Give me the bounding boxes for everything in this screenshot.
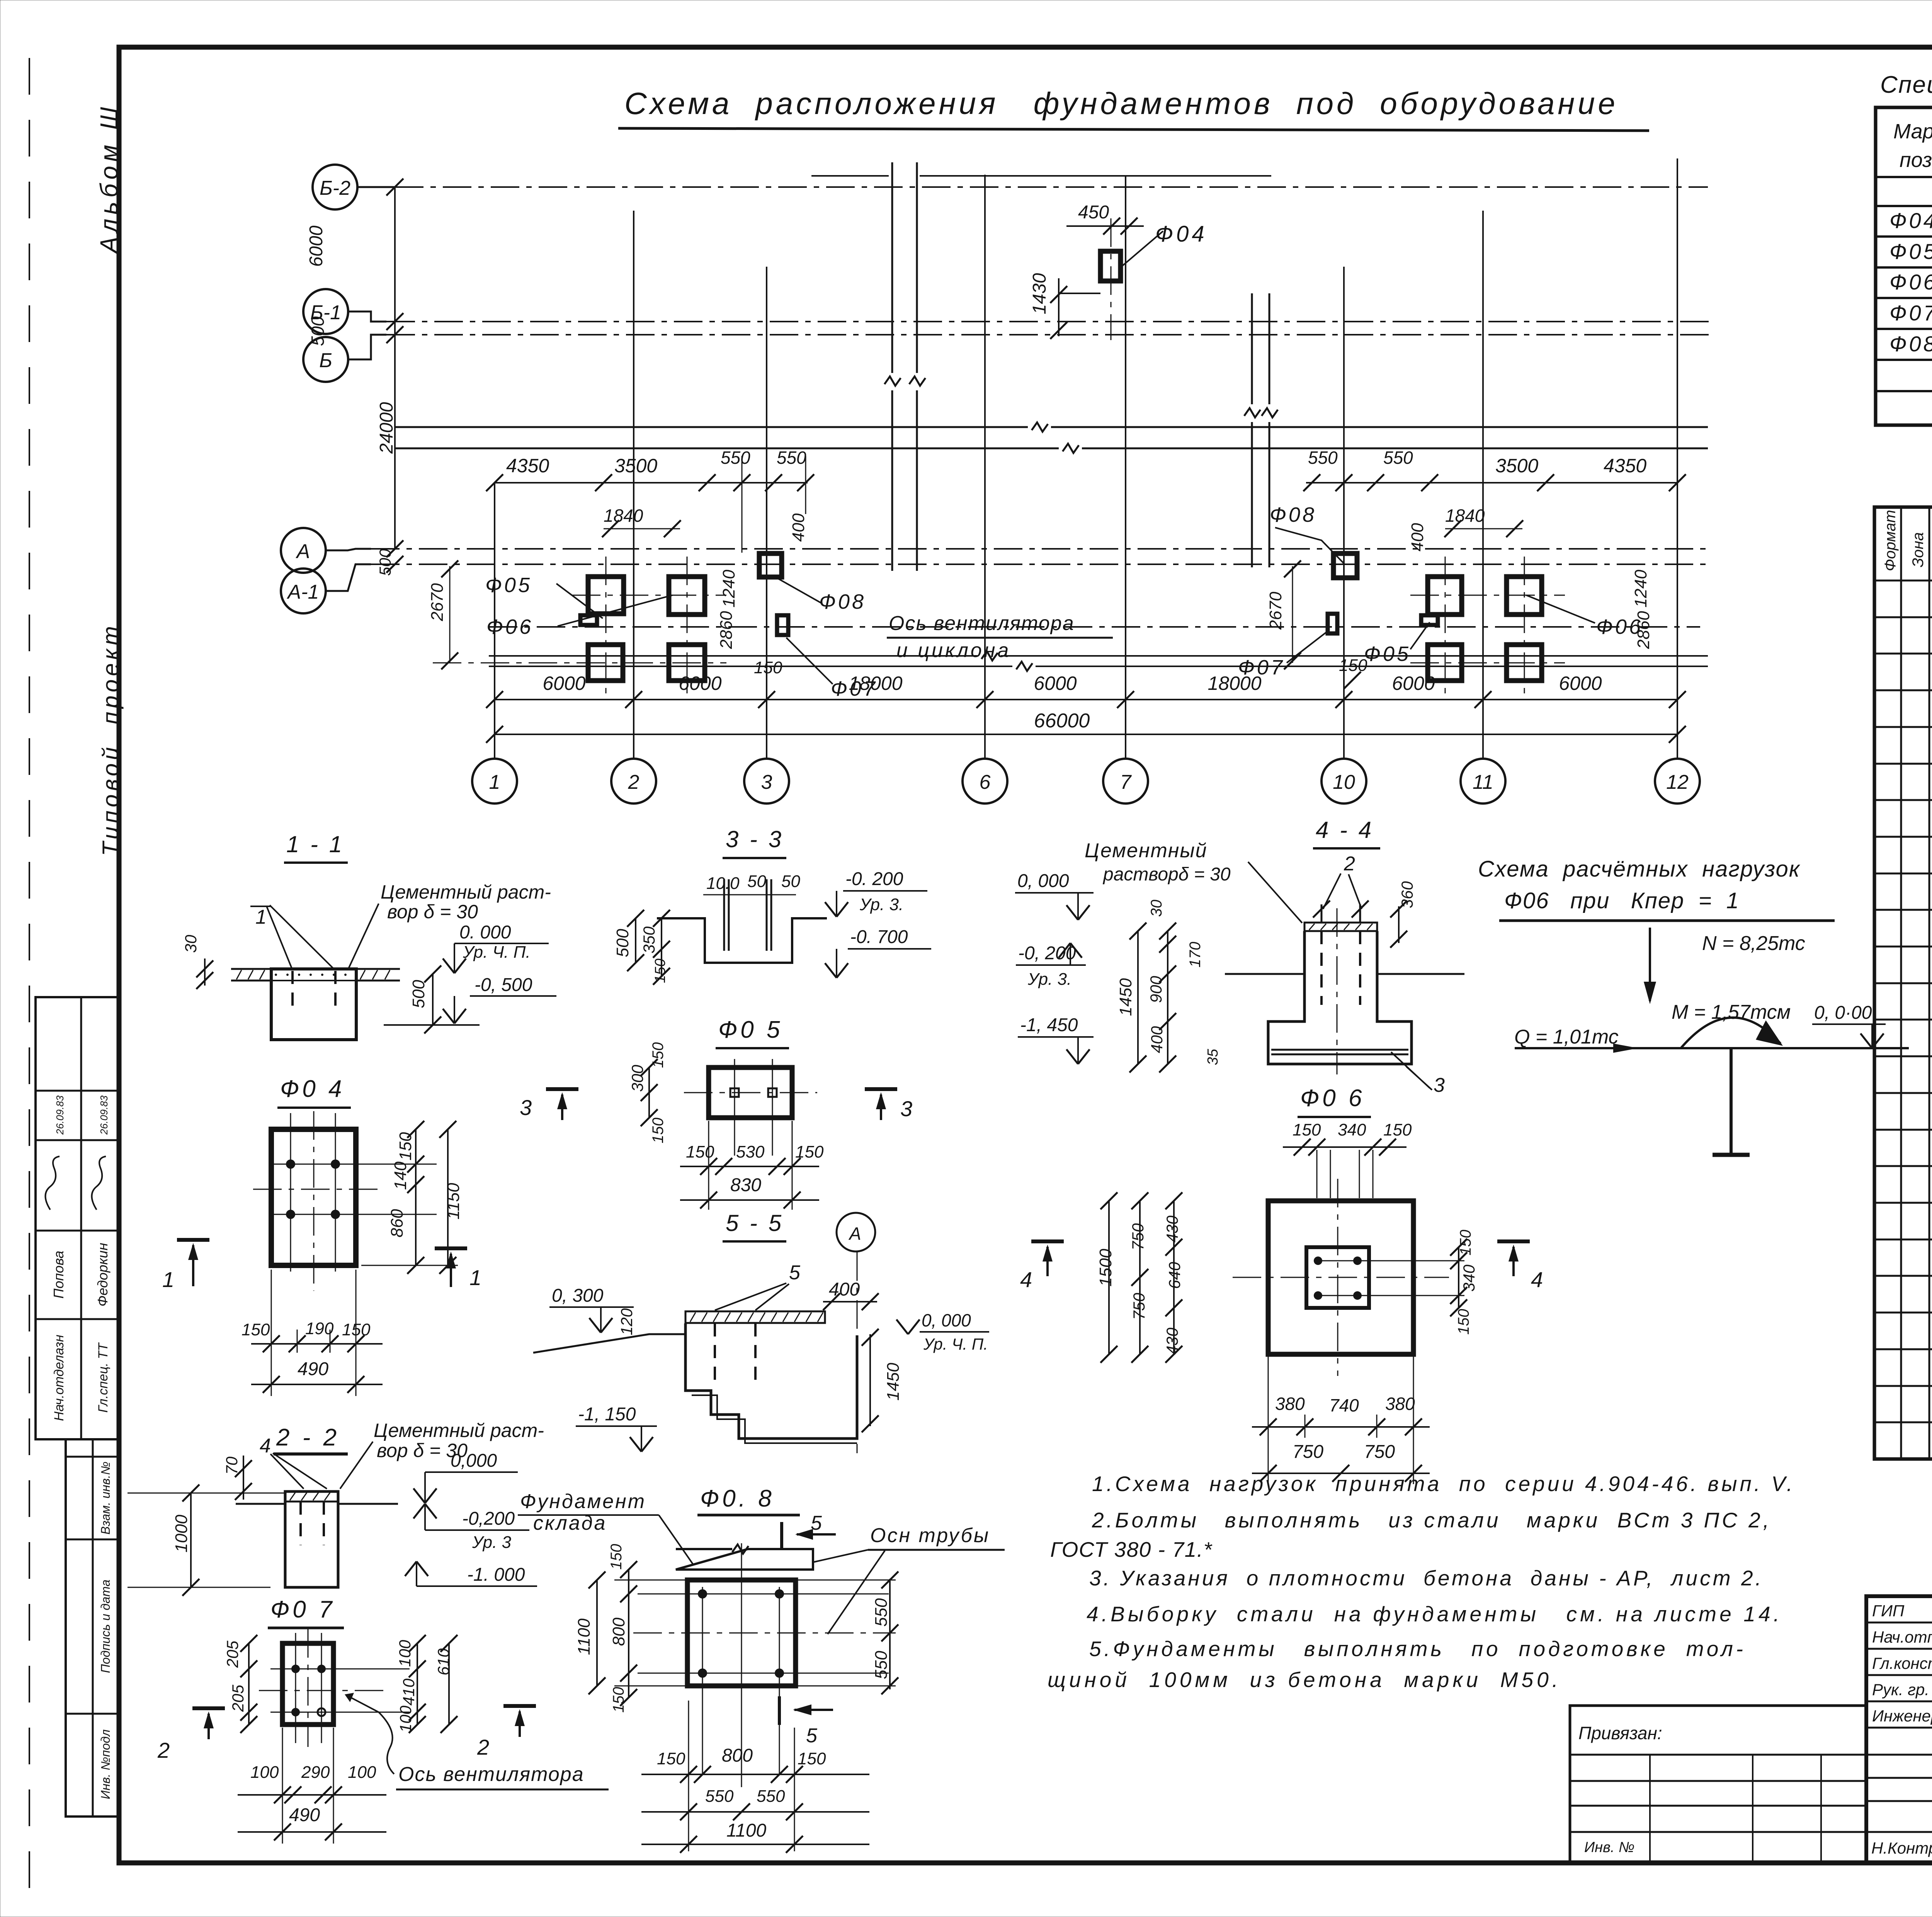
FO5 detail plan: [684, 1059, 817, 1156]
svg-text:490: 490: [298, 1359, 328, 1379]
svg-text:7: 7: [1120, 771, 1132, 793]
svg-text:Ур. Ч. П.: Ур. Ч. П.: [923, 1335, 988, 1353]
section 1-1 header: [284, 831, 348, 863]
svg-text:430: 430: [1163, 1215, 1181, 1243]
svg-text:Ф08: Ф08: [1270, 503, 1316, 526]
section 1-1 drawing: [231, 881, 551, 1040]
svg-text:150: 150: [610, 1687, 627, 1713]
svg-text:0. 000: 0. 000: [459, 922, 511, 943]
svg-text:400: 400: [1408, 523, 1427, 552]
section 5-5 drawing: [533, 1252, 989, 1453]
svg-text:0, 000: 0, 000: [1017, 871, 1069, 891]
svg-text:550: 550: [1383, 448, 1413, 468]
svg-text:1 - 1: 1 - 1: [286, 831, 344, 857]
svg-text:26.09.83: 26.09.83: [98, 1095, 110, 1135]
FO6 left dims: [1096, 1192, 1184, 1363]
svg-text:500: 500: [613, 929, 632, 957]
FO6 plan square: [1233, 1179, 1464, 1376]
svg-text:450: 450: [1078, 202, 1109, 223]
svg-text:150: 150: [608, 1544, 625, 1570]
svg-text:150: 150: [1293, 1120, 1321, 1139]
svg-text:-1. 000: -1. 000: [467, 1565, 525, 1585]
svg-text:4: 4: [1020, 1267, 1032, 1292]
section 2-2 drawing: [128, 1420, 544, 1596]
svg-text:Рук. гр.: Рук. гр.: [1872, 1680, 1929, 1699]
FO8 bottom dims: [641, 1701, 869, 1853]
svg-text:Формат: Формат: [1882, 510, 1899, 571]
FO4 detail plan: [253, 1111, 458, 1291]
spec table 1 title: [1880, 72, 1932, 98]
dim 150 left: [754, 658, 782, 677]
svg-text:Ось вентилятора: Ось вентилятора: [889, 612, 1075, 635]
svg-text:1150: 1150: [444, 1183, 463, 1219]
svg-text:-0,200: -0,200: [462, 1508, 515, 1529]
FO5 small mark left: [580, 615, 597, 625]
warehouse foundation label: [518, 1490, 693, 1565]
svg-text:Гл.констр: Гл.констр: [1872, 1654, 1932, 1672]
svg-text:100: 100: [396, 1705, 415, 1733]
privyazan table: [1570, 1706, 1866, 1863]
foundation cluster left squares: [433, 557, 726, 696]
svg-text:Ф05: Ф05: [485, 574, 532, 597]
svg-text:50: 50: [781, 872, 800, 891]
svg-text:150: 150: [1457, 1230, 1474, 1256]
svg-text:Ф05: Ф05: [1889, 239, 1932, 264]
svg-text:Н.Контр.: Н.Контр.: [1871, 1839, 1932, 1857]
svg-text:350: 350: [640, 926, 658, 953]
svg-text:6000: 6000: [1559, 672, 1602, 694]
FO8 label right: [1270, 503, 1345, 564]
svg-text:Осн трубы: Осн трубы: [870, 1524, 990, 1547]
axis connectors: [326, 187, 395, 591]
svg-text:340: 340: [1460, 1264, 1478, 1292]
svg-text:Фундамент: Фундамент: [520, 1490, 646, 1513]
fan axis label: [887, 612, 1113, 662]
section 5-5 header: [723, 1210, 786, 1241]
svg-text:1450: 1450: [1116, 978, 1135, 1016]
FO7 section marks 2: [157, 1706, 536, 1762]
svg-text:Федоркин: Федоркин: [95, 1243, 111, 1306]
FO7 mark right: [1328, 614, 1337, 633]
svg-text:3: 3: [761, 771, 772, 793]
svg-text:5: 5: [806, 1725, 818, 1747]
svg-text:1: 1: [255, 906, 267, 928]
svg-text:550: 550: [777, 448, 806, 468]
svg-text:1100: 1100: [575, 1618, 594, 1655]
svg-text:Спецификация к схеме расположе: Спецификация к схеме расположения фундам…: [1880, 72, 1932, 98]
svg-text:640: 640: [1165, 1262, 1184, 1289]
svg-text:150: 150: [1455, 1309, 1472, 1335]
svg-text:Ф07: Ф07: [1889, 301, 1932, 325]
svg-text:Схема расчётных нагрузок: Схема расчётных нагрузок: [1478, 856, 1801, 882]
FO6 label left: [486, 595, 672, 638]
signature table: [1866, 1596, 1932, 1863]
svg-text:740: 740: [1329, 1395, 1359, 1415]
svg-text:750: 750: [1364, 1442, 1395, 1462]
svg-text:6000: 6000: [679, 672, 721, 694]
building wall lines mid: [395, 422, 1708, 453]
svg-text:410: 410: [400, 1678, 418, 1706]
dim 150 right: [1339, 656, 1367, 689]
FO8 mark right: [1333, 553, 1357, 578]
axis line A: [371, 548, 1712, 550]
svg-text:Зона: Зона: [1910, 532, 1927, 567]
foundation FO4 plan mark: [1100, 251, 1121, 281]
svg-text:2: 2: [1344, 853, 1355, 875]
svg-text:1240: 1240: [1631, 570, 1650, 608]
svg-text:1430: 1430: [1029, 273, 1050, 314]
axis circle A detail: [837, 1213, 875, 1251]
svg-text:6000: 6000: [1034, 672, 1077, 694]
svg-text:Гл.спец. ТТ: Гл.спец. ТТ: [96, 1342, 111, 1413]
svg-text:Ф0 6: Ф0 6: [1300, 1085, 1365, 1112]
axis circle 7: [1103, 759, 1148, 804]
svg-text:Цементный раст-: Цементный раст-: [374, 1420, 544, 1441]
svg-text:ГОСТ 380 - 71.*: ГОСТ 380 - 71.*: [1050, 1537, 1213, 1561]
svg-text:1.Схема нагрузок принята по: 1.Схема нагрузок принята по серии 4.904-…: [1092, 1472, 1793, 1496]
section 3-3 drawing: [657, 872, 827, 963]
load scheme diagram: [1514, 928, 1909, 1155]
axis circle 3: [744, 759, 789, 804]
svg-text:5 - 5: 5 - 5: [726, 1210, 784, 1236]
svg-text:900: 900: [1147, 976, 1165, 1003]
axis line A-1: [371, 564, 1712, 565]
FO8 plan square: [614, 1543, 896, 1787]
svg-text:550: 550: [872, 1598, 891, 1627]
FO6 detail header: [1298, 1085, 1371, 1117]
svg-text:170: 170: [1187, 942, 1204, 968]
FO8 five marks: [779, 1512, 836, 1747]
svg-text:2 - 2: 2 - 2: [276, 1424, 340, 1451]
svg-text:А: А: [296, 540, 310, 563]
FO7 label right: [1238, 630, 1329, 679]
svg-text:Ф08: Ф08: [819, 590, 866, 613]
FO5 label left: [485, 574, 603, 618]
dim 1430: [1029, 273, 1100, 339]
svg-text:5: 5: [789, 1262, 801, 1284]
section 4-4 dims: [1116, 881, 1416, 1073]
svg-text:10.0: 10.0: [706, 874, 740, 893]
svg-text:1500: 1500: [1096, 1249, 1115, 1287]
title block frame: [1866, 1596, 1932, 1863]
svg-text:3. Указания о плотности бето: 3. Указания о плотности бетона даны - АР…: [1089, 1566, 1761, 1590]
axis circle B: [303, 337, 348, 382]
svg-text:Подпись и дата: Подпись и дата: [99, 1580, 112, 1673]
svg-text:150: 150: [657, 1749, 685, 1768]
pipe axis label: [813, 1524, 1005, 1634]
axis circle 10: [1321, 759, 1366, 804]
svg-text:26.09.83: 26.09.83: [54, 1095, 66, 1135]
svg-text:150: 150: [650, 1042, 667, 1068]
section 2-2 header: [274, 1424, 348, 1454]
svg-text:530: 530: [736, 1142, 765, 1161]
svg-text:50: 50: [747, 872, 766, 891]
axis circle 11: [1461, 759, 1505, 804]
svg-text:4: 4: [260, 1435, 271, 1457]
FO6 top dims: [1283, 1120, 1412, 1198]
FO7 detail plan: [259, 1629, 410, 1747]
svg-text:35: 35: [1205, 1049, 1221, 1065]
svg-text:-0. 700: -0. 700: [850, 927, 908, 947]
svg-text:66000: 66000: [1034, 710, 1090, 732]
svg-text:щиной 100мм из бетона марки: щиной 100мм из бетона марки М50.: [1048, 1668, 1558, 1692]
axis circle 1: [472, 759, 517, 804]
svg-text:Ось вентилятора: Ось вентилятора: [398, 1763, 584, 1786]
axis circle 6: [963, 759, 1007, 804]
FO8 slab: [676, 1544, 813, 1570]
svg-text:3500: 3500: [614, 455, 657, 477]
FO8 right dims: [872, 1571, 898, 1694]
FO7 mark left: [777, 615, 788, 635]
svg-text:290: 290: [301, 1763, 330, 1782]
svg-text:поз.: поз.: [1900, 148, 1932, 172]
svg-text:2860: 2860: [717, 611, 736, 649]
svg-text:M = 1,57тсм: M = 1,57тсм: [1672, 1001, 1791, 1023]
FO8 mark left: [759, 553, 782, 577]
svg-text:360: 360: [1398, 881, 1416, 908]
svg-text:Нач.отделазн: Нач.отделазн: [52, 1335, 66, 1421]
svg-text:4350: 4350: [1604, 455, 1646, 477]
svg-text:вор δ = 30: вор δ = 30: [387, 901, 478, 923]
svg-text:0, 0·00: 0, 0·00: [1814, 1003, 1872, 1023]
svg-text:150: 150: [652, 958, 668, 983]
column grid verticals: [495, 158, 1677, 758]
svg-text:Б: Б: [319, 349, 332, 372]
svg-text:860: 860: [388, 1209, 406, 1238]
svg-text:Ф06: Ф06: [486, 615, 533, 638]
svg-text:380: 380: [1385, 1394, 1415, 1414]
svg-text:400: 400: [1148, 1026, 1166, 1053]
FO8 left dims: [575, 1544, 637, 1713]
section 3-3 right levels: [825, 869, 931, 978]
section 3-3 header: [723, 826, 786, 858]
spec table 1: [1876, 107, 1932, 425]
svg-text:Ф06 при Кпер = 1: Ф06 при Кпер = 1: [1504, 888, 1740, 913]
FO7 bottom dims: [238, 1728, 386, 1844]
FO7 left dims: [223, 1635, 257, 1733]
svg-text:Б-2: Б-2: [320, 177, 350, 199]
svg-text:Ф0 5: Ф0 5: [718, 1016, 783, 1043]
svg-text:380: 380: [1275, 1394, 1305, 1414]
svg-text:550: 550: [705, 1787, 734, 1806]
svg-text:Ф0. 8: Ф0. 8: [700, 1485, 775, 1512]
svg-text:Схема расположения фундамен: Схема расположения фундаментов под обору…: [624, 86, 1615, 121]
svg-text:N = 8,25тс: N = 8,25тс: [1702, 932, 1805, 955]
svg-text:550: 550: [1308, 448, 1338, 468]
FO6 label right: [1526, 595, 1643, 638]
svg-text:Попова: Попова: [51, 1251, 66, 1299]
svg-text:4350: 4350: [506, 455, 549, 477]
svg-text:550: 550: [757, 1787, 785, 1806]
svg-text:-0. 200: -0. 200: [845, 869, 903, 889]
svg-text:100: 100: [250, 1763, 279, 1782]
svg-text:Ф08: Ф08: [1889, 332, 1932, 356]
svg-text:610: 610: [434, 1648, 452, 1675]
left sidebar stamp strip: [36, 997, 119, 1817]
svg-text:3500: 3500: [1495, 455, 1538, 477]
svg-text:2670: 2670: [1266, 592, 1285, 630]
left dim line vertical: [306, 179, 403, 576]
svg-text:3: 3: [1434, 1074, 1445, 1096]
svg-text:150: 150: [686, 1142, 714, 1161]
dim 450: [1066, 202, 1144, 235]
axis circle B-2: [313, 165, 357, 209]
svg-text:3: 3: [900, 1096, 912, 1121]
svg-text:-0, 500: -0, 500: [474, 975, 532, 995]
svg-text:150: 150: [798, 1749, 826, 1768]
load scheme title: [1478, 856, 1835, 921]
svg-text:30: 30: [1148, 900, 1165, 917]
section 3-3 left dims: [613, 910, 670, 985]
svg-text:24000: 24000: [376, 402, 397, 454]
building wall lines top: [811, 175, 1271, 177]
building column pair right: [1244, 293, 1278, 567]
section 1-1 levels: [182, 922, 556, 1033]
svg-text:430: 430: [1163, 1327, 1181, 1355]
FO4 bottom dims: [241, 1270, 383, 1396]
svg-text:205: 205: [229, 1684, 247, 1712]
FO7 label left: [786, 638, 878, 700]
svg-text:100: 100: [396, 1639, 414, 1667]
svg-text:750: 750: [1129, 1223, 1147, 1250]
svg-text:6000: 6000: [1392, 672, 1435, 694]
section 4-4 drawing: [1085, 839, 1464, 1096]
svg-text:340: 340: [1338, 1120, 1366, 1139]
svg-text:18000: 18000: [1207, 672, 1261, 694]
axis circle A-1: [281, 569, 326, 613]
fan axis line: [489, 626, 1700, 628]
bottom dim row 6000s: [486, 672, 1686, 708]
svg-text:5: 5: [811, 1512, 822, 1534]
svg-text:100: 100: [348, 1763, 376, 1782]
svg-text:0,000: 0,000: [451, 1451, 497, 1471]
FO5 detail header: [716, 1016, 789, 1048]
svg-text:205: 205: [223, 1640, 241, 1668]
svg-text:1840: 1840: [604, 506, 643, 526]
FO7 right dims: [396, 1635, 457, 1733]
svg-text:4.Выборку стали на фундамент: 4.Выборку стали на фундаменты см. на лис…: [1087, 1602, 1779, 1626]
section 4-4 levels left: [1015, 871, 1094, 1064]
svg-text:800: 800: [722, 1745, 753, 1766]
svg-text:2: 2: [157, 1738, 170, 1762]
svg-text:Привязан:: Привязан:: [1578, 1723, 1662, 1743]
svg-text:150: 150: [754, 658, 782, 677]
svg-text:18000: 18000: [849, 672, 902, 694]
svg-text:ГИП: ГИП: [1872, 1602, 1905, 1620]
FO4 label: [1121, 221, 1207, 267]
axis line B-1: [386, 321, 1712, 322]
svg-text:Инженер: Инженер: [1872, 1707, 1932, 1725]
svg-text:6000: 6000: [543, 672, 585, 694]
svg-text:Ур. 3.: Ур. 3.: [1027, 970, 1071, 989]
svg-text:30: 30: [182, 935, 200, 953]
spec table 2: [1874, 507, 1932, 1459]
svg-text:1450: 1450: [884, 1363, 903, 1401]
svg-text:500: 500: [409, 980, 428, 1008]
svg-text:4 - 4: 4 - 4: [1316, 817, 1374, 843]
fan axis label detail: [345, 1693, 609, 1789]
axis line B-2: [395, 186, 1708, 188]
sheet fold dash line left: [29, 58, 30, 1913]
svg-text:А: А: [848, 1224, 861, 1244]
svg-text:Цементный раст-: Цементный раст-: [381, 881, 551, 903]
svg-text:550: 550: [872, 1651, 891, 1679]
svg-text:1: 1: [489, 771, 500, 793]
svg-text:растворδ = 30: растворδ = 30: [1102, 864, 1231, 885]
left margin label: album III: [95, 107, 123, 255]
svg-text:Нач.отпа: Нач.отпа: [1872, 1628, 1932, 1646]
svg-text:1: 1: [469, 1265, 481, 1290]
bottom dim row 66000: [486, 710, 1686, 743]
svg-text:800: 800: [609, 1617, 628, 1646]
svg-text:400: 400: [789, 513, 808, 542]
svg-text:2: 2: [477, 1735, 489, 1759]
svg-text:150: 150: [1383, 1120, 1412, 1139]
svg-text:6: 6: [980, 771, 991, 793]
svg-text:Q = 1,01тс: Q = 1,01тс: [1514, 1026, 1619, 1048]
FO5 small mark right: [1421, 615, 1438, 625]
top dims right: [1266, 448, 1686, 669]
svg-text:10: 10: [1333, 771, 1355, 793]
svg-text:2.Болты выполнять из стали: 2.Болты выполнять из стали марки ВСт 3 П…: [1092, 1508, 1769, 1532]
FO4 detail header: [277, 1076, 351, 1108]
svg-text:Инв. №: Инв. №: [1584, 1839, 1634, 1856]
svg-text:2: 2: [628, 771, 639, 793]
svg-text:Ф0 4: Ф0 4: [280, 1076, 345, 1102]
svg-text:4: 4: [1531, 1267, 1543, 1292]
FO5 bottom dims: [680, 1121, 824, 1210]
svg-text:2860: 2860: [1634, 611, 1653, 649]
svg-text:300: 300: [628, 1064, 646, 1092]
FO8 detail header: [697, 1485, 800, 1515]
svg-text:12: 12: [1666, 771, 1689, 793]
svg-text:Цементный: Цементный: [1085, 839, 1207, 862]
svg-text:400: 400: [829, 1279, 860, 1300]
building wall lines bottom: [489, 651, 1708, 671]
svg-text:830: 830: [730, 1175, 761, 1195]
FO6 section marks 4: [1020, 1241, 1543, 1292]
svg-text:Марка,: Марка,: [1893, 120, 1932, 143]
svg-text:550: 550: [721, 448, 750, 468]
svg-text:120: 120: [617, 1308, 636, 1335]
svg-text:1240: 1240: [719, 570, 738, 608]
FO4 axis dashdot: [1111, 218, 1112, 340]
svg-text:5.Фундаменты выполнять по: 5.Фундаменты выполнять по подготовке тол…: [1089, 1637, 1743, 1661]
building column pair left: [884, 162, 925, 571]
svg-text:1100: 1100: [726, 1820, 767, 1841]
FO7 detail header: [268, 1596, 344, 1628]
svg-text:Ур. Ч. П.: Ур. Ч. П.: [463, 943, 531, 962]
axis line B: [386, 334, 1712, 335]
svg-text:Ур. 3.: Ур. 3.: [859, 895, 903, 914]
svg-text:11: 11: [1473, 771, 1493, 793]
svg-text:0, 300: 0, 300: [552, 1285, 604, 1306]
svg-text:3: 3: [520, 1095, 532, 1120]
svg-text:Ф04: Ф04: [1155, 221, 1207, 247]
svg-text:А-1: А-1: [287, 581, 319, 603]
axis circle B-1: [303, 289, 348, 334]
FO5 section marks 3: [520, 1089, 912, 1121]
FO5 left dims: [628, 1042, 667, 1144]
main title: [618, 86, 1649, 131]
axis circle A: [281, 528, 326, 573]
svg-text:1: 1: [162, 1267, 174, 1292]
svg-text:150: 150: [241, 1320, 270, 1339]
svg-text:-1, 150: -1, 150: [578, 1404, 636, 1425]
svg-text:1000: 1000: [172, 1515, 191, 1553]
FO6 bottom dims: [1252, 1357, 1430, 1484]
axis circle 12: [1655, 759, 1700, 804]
